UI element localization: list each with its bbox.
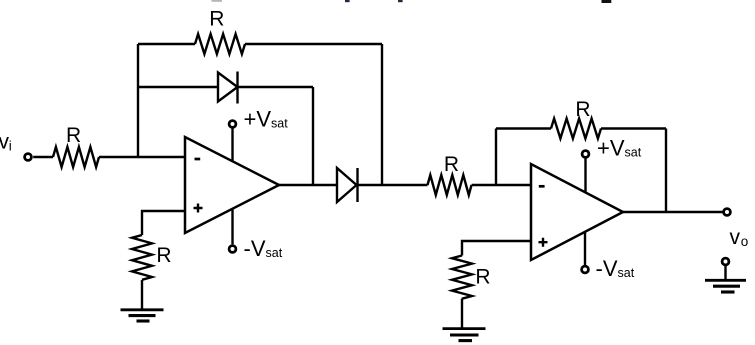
label vo [730,226,749,249]
wire [495,129,497,186]
wire [312,87,314,185]
svg-text:R: R [66,124,81,147]
wire [358,184,428,186]
wire [496,127,551,129]
op-amp U2 [531,164,623,260]
wire [462,241,531,256]
terminal vo [724,209,731,216]
wire [381,44,383,185]
svg-text:R: R [475,266,490,289]
resistor R5 [551,119,601,139]
wire [99,156,185,158]
svg-text:v: v [730,226,741,249]
wire [245,43,382,45]
terminal +Vsat U2 [582,151,589,193]
svg-text:o: o [741,234,749,249]
terminal -Vsat U1 [229,208,236,252]
svg-text:R: R [209,7,224,30]
terminal ground vo [722,258,729,279]
resistor R4 [428,175,472,195]
wire [461,299,463,328]
resistor R2 [195,34,245,54]
wire [138,43,195,45]
svg-text:i: i [9,138,12,153]
terminal +Vsat U1 [229,121,236,162]
wire [472,184,531,186]
wire [279,184,337,186]
terminal vi [25,154,32,161]
node A [137,44,139,157]
ground G2 [443,329,486,341]
svg-text:R: R [575,98,590,121]
terminal -Vsat U2 [582,231,589,273]
wire [601,127,666,129]
ground G1 [121,310,164,321]
wire [141,280,143,309]
svg-text:R: R [444,153,459,176]
op-amp U1 [185,137,279,233]
cropped text fragment [212,0,612,3]
diode D2 [337,168,358,202]
ground G3 [705,280,746,292]
wire [142,211,185,235]
svg-text:R: R [156,244,171,267]
wire [623,211,723,213]
wire [33,156,53,158]
wire [665,129,667,213]
label vi [0,130,12,153]
resistor R3 [132,235,152,280]
resistor R1 [53,147,99,167]
wire [138,86,218,88]
wire [238,86,314,88]
resistor R6 [452,256,472,299]
diode D1 [218,72,238,104]
